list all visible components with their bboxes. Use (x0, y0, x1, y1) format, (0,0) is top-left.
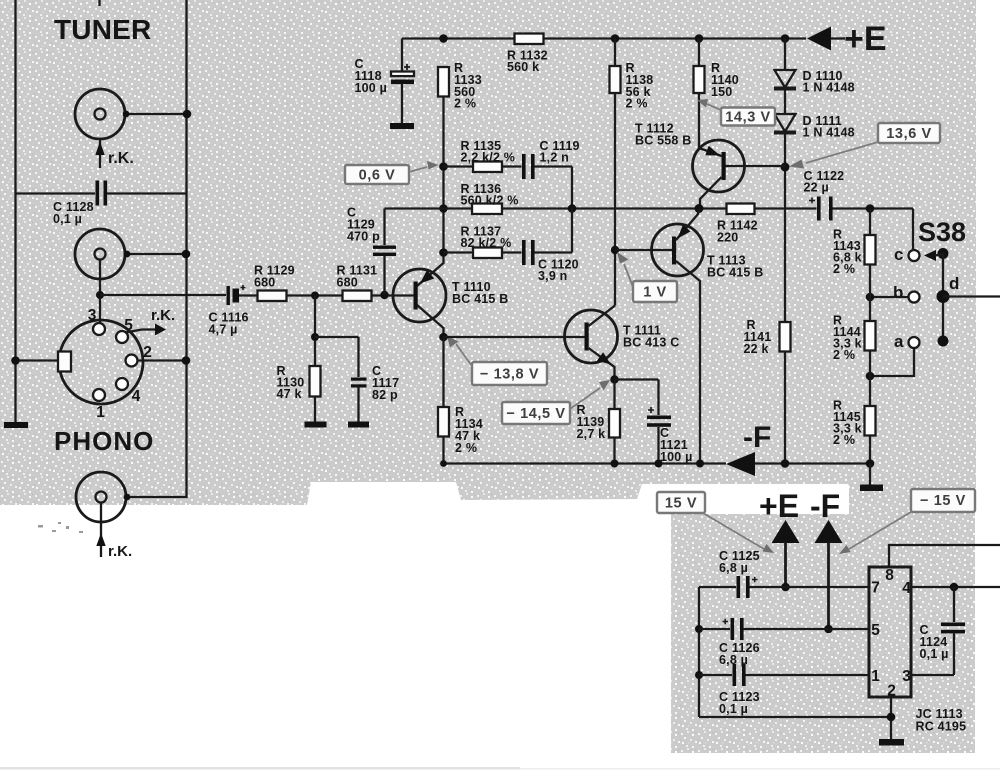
capacitor C1120 3,9n (502, 207, 579, 283)
pin 4 (902, 580, 911, 597)
svg-text:1,2 n: 1,2 n (540, 151, 570, 165)
scan streak artifact (bottom) (0, 767, 1000, 770)
junction on bus (middle row) (182, 250, 191, 259)
junction -F stem / pin5 row (824, 625, 833, 634)
junction feedback bus left (439, 204, 448, 213)
+E supply arrow (772, 520, 800, 587)
junction R1139 bottom (611, 460, 619, 468)
wire: R1129 to R1131 (287, 294, 343, 296)
capacitor C1116 4,7u (209, 285, 258, 337)
svg-text:2 %: 2 % (833, 348, 855, 362)
capacitor C1124 0,1u (920, 587, 966, 675)
svg-text:8: 8 (885, 567, 894, 584)
switch S38 contact b (870, 283, 920, 303)
svg-text:2: 2 (887, 683, 896, 700)
switch S38 pole arm (924, 248, 950, 347)
svg-text:6,8 µ: 6,8 µ (719, 561, 748, 575)
junction R1137 left (439, 248, 448, 257)
capacitor C1128 (16, 181, 187, 227)
svg-text:TUNER: TUNER (54, 14, 151, 45)
junction R1130/C1117 tee (311, 333, 319, 341)
wire: R1130 to ground (314, 397, 316, 423)
resistor R1138 56k (610, 39, 654, 306)
svg-text:BC 413 C: BC 413 C (623, 336, 679, 350)
IC U1113 RC4195 regulator (869, 567, 966, 734)
svg-text:2 %: 2 % (833, 262, 855, 276)
resistor R1139 2,7k (577, 380, 621, 464)
wire: middle jack to bus (126, 253, 187, 255)
wire: R1133 feed line down (emitter node column) (417, 97, 444, 287)
wire: tee to C1117 (315, 337, 359, 377)
junction T1112 collector / R1142 / T1113 emitter (695, 204, 704, 213)
r.K. arrow below TUNER jack (95, 140, 133, 169)
svg-text:BC 415 B: BC 415 B (452, 292, 508, 306)
pin number 4 (132, 388, 141, 405)
svg-text:150: 150 (711, 85, 732, 99)
wire: R1130 branch down (314, 296, 316, 367)
wire: DIN pin2 to bus (138, 359, 187, 361)
wire: -F bottom bus (444, 462, 727, 464)
wire: node to C1116 (100, 294, 226, 296)
svg-text:PHONO: PHONO (54, 426, 154, 456)
wire: DIN key to left rail (16, 359, 59, 361)
resistor R1129 680 (254, 264, 295, 302)
svg-text:470 p: 470 p (347, 230, 380, 244)
callout -15 V (839, 489, 975, 554)
r.K. arrow from DIN pin 5 (125, 307, 175, 336)
ground (C1117) (348, 422, 369, 428)
pin 8 (885, 567, 894, 584)
svg-text:1 N 4148: 1 N 4148 (803, 126, 855, 140)
svg-text:22 µ: 22 µ (804, 181, 829, 195)
svg-text:1 N 4148: 1 N 4148 (803, 81, 855, 95)
svg-text:15 V: 15 V (665, 496, 697, 512)
callout 13,6 V (789, 123, 940, 169)
pin 5 (871, 622, 880, 639)
resistor R1143 6,8k (833, 209, 876, 322)
svg-text:560 k: 560 k (507, 60, 539, 74)
wire: left ground rail vertical (14, 0, 16, 422)
wire: R1131 to T1110 base (372, 294, 414, 296)
svg-text:560 k/2 %: 560 k/2 % (461, 194, 519, 208)
callout 14,3 V (697, 99, 775, 126)
svg-text:680: 680 (254, 276, 275, 290)
junction R1144/R1145 node (866, 372, 875, 381)
junction on bus (pin2 row) (182, 356, 191, 365)
pin 3 (902, 668, 911, 685)
scanned paper background block (power supply) (671, 484, 975, 753)
svg-text:-F: -F (743, 421, 771, 454)
pin number 2 (143, 344, 152, 361)
connector J-TUNER (RCA jack) (75, 89, 125, 139)
svg-text:220: 220 (717, 231, 738, 245)
junction pin2 / return (887, 713, 896, 722)
svg-text:4: 4 (902, 580, 911, 597)
svg-text:− 13,8 V: − 13,8 V (480, 367, 539, 383)
transistor T1110 BC415B (393, 269, 508, 337)
pin number 5 (124, 317, 133, 334)
resistor R1141 22k (744, 318, 791, 356)
svg-text:0,6 V: 0,6 V (359, 168, 396, 184)
r.K. arrow below bottom jack (96, 503, 132, 561)
junction R1143/R1144 node (866, 293, 875, 302)
diode D1110 1N4148 (774, 39, 855, 115)
svg-text:3: 3 (88, 307, 97, 324)
resistor R1135 2,2k (444, 139, 516, 172)
junction ground stem (866, 459, 875, 468)
connector J-AUX (middle RCA jack) (75, 229, 125, 279)
junction C1129 / base node (380, 291, 388, 299)
resistor R1131 680 (337, 264, 378, 302)
transistor T1113 BC415B (615, 209, 763, 464)
svg-text:r.K.: r.K. (108, 543, 132, 560)
svg-text:2 %: 2 % (626, 97, 648, 111)
svg-text:3: 3 (902, 668, 911, 685)
svg-text:1: 1 (96, 404, 105, 421)
junction diode string / T1112 base (13,6V node) (781, 163, 790, 172)
wire: right vertical bus of input column (129, 0, 187, 497)
junction on bus (TUNER row) (183, 110, 192, 119)
junction R1130 tap (311, 292, 319, 300)
svg-text:47 k: 47 k (277, 387, 302, 401)
callout 0,6 V (345, 161, 439, 184)
pin 2 (887, 683, 896, 700)
resistor R1145 3,3k (833, 399, 876, 464)
svg-text:2 %: 2 % (455, 441, 477, 455)
callout 15 V (657, 492, 774, 553)
resistor R1137 82k (444, 225, 512, 259)
wire: pin 3 to C1124 bottom (911, 674, 954, 676)
svg-text:22 k: 22 k (744, 342, 769, 356)
wire: stub above TUNER label (98, 0, 100, 6)
svg-text:13,6 V: 13,6 V (886, 126, 932, 142)
label PHONO (54, 426, 154, 456)
junction C1121 bottom (655, 460, 663, 468)
ground (C1118) (390, 123, 414, 129)
resistor R1140 150 (694, 39, 739, 149)
capacitor C1121 100u (615, 380, 693, 465)
resistor R1133 560 (438, 61, 482, 111)
-F supply arrow (815, 520, 843, 629)
resistor R1142 220 (717, 204, 758, 245)
switch S38 contact c (894, 209, 920, 265)
svg-text:-F: -F (810, 488, 840, 524)
svg-text:S38: S38 (918, 217, 966, 247)
svg-text:0,1 µ: 0,1 µ (920, 647, 949, 661)
transistor T1112 BC558B (635, 122, 785, 209)
svg-text:2: 2 (143, 344, 152, 361)
junction C1124 top (950, 583, 959, 592)
svg-text:4,7 µ: 4,7 µ (209, 323, 238, 337)
wire: TUNER jack to bus (126, 113, 187, 115)
junction C1119/C1120 node on bus (568, 204, 577, 213)
junction R1143 top (866, 204, 875, 213)
svg-text:r.K.: r.K. (108, 150, 134, 167)
label d (949, 274, 959, 293)
junction R1135 left (439, 162, 448, 171)
svg-text:2 %: 2 % (454, 97, 476, 111)
junction R1134 bottom (440, 460, 447, 467)
svg-text:14,3 V: 14,3 V (725, 110, 771, 126)
switch S38 contact a (870, 332, 920, 376)
junction on left rail (11, 356, 20, 365)
capacitor C1125 6,8u (699, 549, 869, 598)
label -F (power supply) (810, 488, 840, 524)
svg-text:2,2 k/2 %: 2,2 k/2 % (461, 151, 516, 165)
ground (R1130) (305, 422, 327, 428)
svg-text:− 14,5 V: − 14,5 V (506, 406, 565, 422)
wire: T1110 collector to T1111 base (444, 336, 585, 338)
svg-text:+E: +E (759, 488, 799, 524)
pin number 3 (88, 307, 97, 324)
callout -14,5 V (502, 380, 610, 424)
capacitor C1118 100u (355, 39, 415, 124)
svg-text:BC 558 B: BC 558 B (635, 134, 691, 148)
svg-text:b: b (893, 283, 903, 302)
svg-text:+E: +E (844, 20, 887, 58)
+E rail arrow (top right) (807, 27, 845, 51)
junction left rail pin1 row (695, 671, 703, 679)
svg-text:7: 7 (871, 580, 880, 597)
junction at TUNER jack (123, 111, 130, 118)
callout -13,8 V (447, 336, 547, 385)
pin 1 (871, 668, 880, 685)
connector J-TAPE (bottom RCA jack) (76, 472, 126, 522)
label +E (top right) (844, 20, 887, 58)
svg-text:1 V: 1 V (643, 285, 667, 301)
diode D1111 1N4148 (774, 114, 855, 464)
svg-text:0,1 µ: 0,1 µ (53, 212, 82, 226)
junction node at DIN pin3 / C1116 feed (96, 291, 104, 299)
svg-text:100 µ: 100 µ (355, 81, 388, 95)
junction +E stem / pin7 row (781, 583, 790, 592)
svg-text:100 µ: 100 µ (660, 450, 693, 464)
svg-text:− 15 V: − 15 V (920, 493, 966, 509)
wire: pin 2 down / bottom return (699, 697, 891, 739)
svg-text:82 p: 82 p (372, 388, 398, 402)
junction T1111 emitter node (610, 375, 618, 383)
junction R1140 top (695, 34, 704, 43)
junction T1110 collector node (439, 333, 448, 342)
resistor R1144 3,3k (833, 314, 876, 407)
svg-text:a: a (894, 332, 904, 351)
junction R1138 top (611, 34, 620, 43)
junction T1113 collector bottom (696, 460, 704, 468)
pin 7 (871, 580, 880, 597)
svg-text:0,1 µ: 0,1 µ (719, 702, 748, 716)
resistor R1136 560k (461, 182, 519, 214)
svg-text:r.K.: r.K. (151, 307, 175, 324)
resistor R1134 47k (438, 337, 483, 464)
svg-text:c: c (894, 245, 903, 264)
wire: pole d output to right edge (943, 295, 1000, 297)
-F rail arrow (726, 452, 870, 476)
label TUNER (54, 14, 151, 45)
transistor T1111 BC413C (565, 306, 680, 380)
connector J-PHONO DIN socket (58, 320, 143, 404)
svg-text:82 k/2 %: 82 k/2 % (461, 236, 512, 250)
junction at bottom jack (124, 494, 131, 501)
ground (PSU) (879, 739, 904, 746)
ground (S38 divider) (860, 464, 883, 492)
capacitor C1126 6,8u (699, 618, 869, 667)
capacitor C1117 82p (351, 364, 399, 402)
junction T1113 base node (1V) (611, 246, 619, 254)
wire: middle jack pin to DIN pin 3 node (99, 260, 101, 324)
svg-text:680: 680 (337, 276, 358, 290)
junction left rail pin5 row (695, 625, 703, 633)
scan specks (38, 522, 83, 533)
capacitor C1119 1,2n (502, 139, 580, 207)
wire: PSU left rail (698, 587, 700, 717)
svg-text:RC 4195: RC 4195 (916, 720, 967, 734)
svg-text:4: 4 (132, 388, 141, 405)
wire: pin 8 up and right (889, 545, 1000, 567)
svg-text:1: 1 (871, 668, 880, 685)
wire: feedback bus (385, 207, 817, 209)
wire: C1117 to ground (357, 388, 359, 423)
pin number 1 (96, 404, 105, 421)
junction at middle jack (124, 251, 131, 258)
resistor R1130 47k (277, 364, 321, 401)
junction D1110 top (781, 34, 790, 43)
ground (left rail, DIN shield) (4, 422, 28, 428)
capacitor C1122 22u (804, 169, 914, 221)
label -F (mid right) (743, 421, 771, 454)
resistor R1132 560k (507, 34, 548, 75)
junction R1133 top (439, 34, 448, 43)
svg-text:3,9 n: 3,9 n (538, 269, 568, 283)
label +E (power supply) (759, 488, 799, 524)
svg-text:2,7 k: 2,7 k (577, 427, 606, 441)
svg-text:5: 5 (871, 622, 880, 639)
svg-text:BC 415 B: BC 415 B (707, 266, 763, 280)
wire: +E top bus (402, 37, 806, 39)
wire: pin 4 output right (911, 586, 1000, 588)
callout 1 V (617, 252, 677, 302)
scanned paper background block (main schematic) (0, 0, 976, 505)
svg-text:2 %: 2 % (833, 433, 855, 447)
junction R1141 bottom (781, 459, 790, 468)
label S38 (918, 217, 966, 247)
capacitor C1129 470p (347, 206, 396, 295)
capacitor C1123 0,1u (699, 664, 869, 716)
svg-text:d: d (949, 274, 959, 293)
